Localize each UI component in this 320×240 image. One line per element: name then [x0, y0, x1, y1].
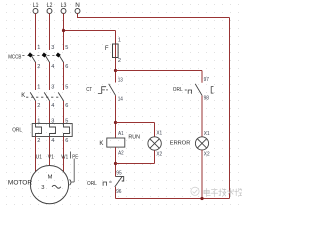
svg-text:4: 4 [51, 64, 54, 70]
watermark text [204, 189, 242, 197]
wire L3 to MCCB [63, 13, 65, 50]
wire through fuse [115, 44, 117, 58]
wire branch down to fuse [115, 31, 117, 45]
wire down to RUN lamp [154, 123, 156, 138]
MCCB linkage dashed [22, 54, 59, 56]
overload relay ORL thermal block [32, 124, 72, 137]
svg-text:5: 5 [65, 84, 68, 90]
svg-text:ORL: ORL [87, 181, 97, 187]
wire K to ORL pole 1 [35, 101, 37, 124]
K pole 2 blade [44, 92, 50, 101]
K pole 3 blade [58, 92, 64, 101]
svg-text:ERROR: ERROR [170, 141, 191, 147]
ORL 95 trip symbol [103, 182, 106, 186]
wire PE down [73, 159, 75, 183]
node junction L3 branch [62, 29, 65, 32]
wire RUN lamp down [154, 150, 156, 163]
wire coil K to ORL 95 [115, 147, 117, 176]
svg-text:5: 5 [65, 118, 68, 124]
svg-text:L2: L2 [47, 2, 53, 9]
svg-text:96: 96 [116, 189, 121, 195]
svg-text:97: 97 [204, 77, 209, 83]
CT blade [109, 84, 116, 96]
wire N down [77, 13, 79, 18]
svg-text:6: 6 [65, 64, 68, 70]
wire N horizontal top [78, 17, 230, 19]
wire K to ORL pole 2 [49, 101, 51, 124]
node junction ERROR rail [200, 197, 203, 200]
ORL 95 blade [115, 176, 123, 187]
svg-text:X1: X1 [156, 130, 162, 136]
wire down to ORL 97 [201, 71, 203, 83]
ORL 95 trip dash [109, 181, 113, 183]
svg-text:3: 3 [41, 185, 44, 191]
wire CT to coil K [115, 96, 117, 138]
svg-text:3: 3 [51, 45, 54, 51]
MCCB pole 1 contact square [28, 52, 33, 57]
ORL 95 seat hook [116, 177, 124, 181]
lamp RUN [148, 137, 161, 150]
wire ORL 98 to ERROR lamp [201, 96, 203, 137]
wire N right side down [229, 18, 231, 199]
svg-text:MCCB: MCCB [8, 54, 21, 60]
contactor K main contacts [21, 84, 68, 109]
MCCB pole 2 blade [44, 53, 50, 63]
wire K to ORL pole 3 [63, 101, 65, 124]
lamp ERROR [195, 137, 208, 150]
svg-text:A1: A1 [118, 131, 124, 137]
MCCB pole 2 contact square [42, 52, 47, 57]
MCCB pole 1 blade [30, 53, 36, 63]
ORL 97 blade [195, 84, 202, 96]
ORL heater pole 1 [36, 124, 42, 137]
svg-text:6: 6 [65, 103, 68, 109]
wire branch to RUN lamp [116, 122, 155, 124]
watermark logo [191, 187, 199, 195]
wire PE to motor frame [71, 181, 74, 183]
motor tilde [52, 185, 61, 188]
svg-text:2: 2 [118, 58, 121, 64]
terminal N [75, 9, 80, 14]
MCCB pole 3 contact square [56, 52, 61, 57]
svg-text:PE: PE [72, 154, 78, 160]
terminal L3 [61, 9, 66, 14]
wire MCCB to K pole 1 [35, 63, 37, 91]
svg-text:A2: A2 [118, 151, 124, 157]
K pole 1 blade [30, 92, 36, 101]
ORL 97 trip symbol [188, 90, 191, 94]
ORL NC contact 95-96 [87, 171, 124, 196]
ORL heater pole 3 [64, 124, 70, 137]
ORL NO contact 97-98 [173, 77, 214, 101]
svg-text:MOTOR: MOTOR [8, 181, 33, 187]
svg-text:M: M [48, 175, 53, 181]
MCCB pole 3 blade [58, 53, 64, 63]
pushbutton CT [86, 78, 123, 103]
svg-text:5: 5 [65, 45, 68, 51]
svg-text:ORL: ORL [173, 87, 183, 93]
svg-text:2: 2 [37, 64, 40, 70]
wire ORL to motor V1 [49, 137, 51, 167]
node junction RUN return [114, 162, 117, 165]
svg-text:L1: L1 [33, 2, 39, 9]
svg-text:3: 3 [51, 84, 54, 90]
ORL heater pole 2 [50, 124, 56, 137]
svg-text:95: 95 [116, 171, 121, 177]
wire bottom rail [116, 198, 230, 200]
svg-text:X2: X2 [156, 151, 162, 157]
svg-text:2: 2 [37, 103, 40, 109]
svg-text:CT: CT [86, 87, 92, 93]
terminal L2 [47, 9, 52, 14]
wire ORL 96 to bottom rail [115, 187, 117, 199]
svg-text:K: K [99, 141, 103, 147]
PE divider tick [70, 152, 72, 159]
svg-text:14: 14 [118, 97, 123, 103]
svg-text:N: N [75, 2, 80, 9]
svg-text:RUN: RUN [128, 135, 140, 141]
breaker MCCB [8, 45, 68, 70]
coil K [107, 138, 125, 147]
svg-text:K: K [21, 93, 25, 99]
wire ORL to motor U1 [35, 137, 37, 172]
svg-text:2: 2 [37, 138, 40, 144]
svg-text:98: 98 [204, 96, 209, 102]
CT actuator link dash [106, 89, 109, 91]
svg-text:4: 4 [51, 103, 54, 109]
PE frame clamp arc [70, 179, 71, 185]
svg-text:1: 1 [37, 118, 40, 124]
ORL 97 trip dash [185, 89, 187, 91]
ORL 97 reset hook [211, 87, 213, 94]
wire L2 to MCCB [49, 13, 51, 50]
wire MCCB to K pole 2 [49, 63, 51, 91]
svg-text:U1: U1 [36, 154, 42, 160]
svg-text:X2: X2 [204, 151, 210, 157]
node junction RUN branch [114, 121, 117, 124]
svg-text:1: 1 [37, 84, 40, 90]
fuse F [113, 44, 119, 58]
svg-text:X1: X1 [204, 131, 210, 137]
motor M [30, 166, 68, 204]
wire fuse to node 13 [115, 58, 117, 83]
svg-text:6: 6 [65, 138, 68, 144]
svg-text:ORL: ORL [12, 128, 22, 134]
wire node 13 to ORL 97 branch [116, 70, 203, 72]
wire MCCB to K pole 3 [63, 63, 65, 91]
svg-text:3: 3 [51, 118, 54, 124]
wire L1 to MCCB [35, 13, 37, 50]
svg-text:F: F [105, 46, 109, 52]
svg-text:1: 1 [118, 38, 121, 44]
wire ERROR lamp to bottom rail [201, 150, 203, 199]
wire ORL to motor W1 [63, 137, 65, 172]
wire RUN lamp return [116, 163, 155, 165]
svg-text:W1: W1 [61, 154, 68, 160]
svg-text:L3: L3 [61, 2, 67, 9]
CT actuator [98, 87, 106, 94]
svg-text:V1: V1 [48, 154, 54, 160]
K linkage dashed [26, 96, 59, 98]
wire L3 branch to fuse [64, 30, 116, 32]
terminal L1 [33, 9, 38, 14]
node 13 junction [114, 69, 117, 72]
svg-text:4: 4 [51, 138, 54, 144]
svg-text:13: 13 [118, 78, 123, 84]
svg-text:1: 1 [37, 45, 40, 51]
